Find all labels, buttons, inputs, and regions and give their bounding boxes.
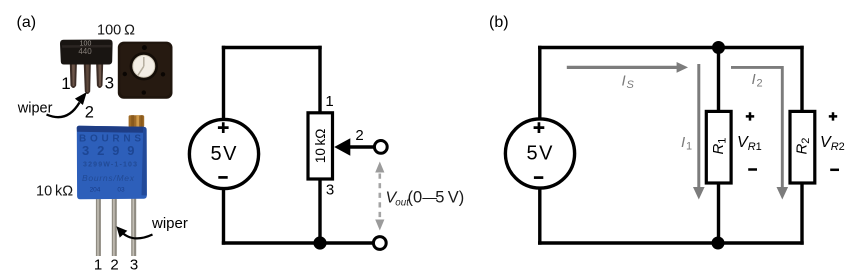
wire: (b) left lower xyxy=(538,189,541,245)
mould holes xyxy=(142,45,147,50)
wire: (a) top xyxy=(222,46,322,49)
potentiometer body 10k (a) xyxy=(308,113,333,179)
svg-text:wiper: wiper xyxy=(151,215,188,232)
wire: (a) right upper xyxy=(318,46,321,113)
svg-text:1: 1 xyxy=(756,141,762,153)
wire: R1 branch lower xyxy=(717,182,720,244)
junction node (b) top xyxy=(712,41,725,54)
current arrow I1 xyxy=(693,64,705,200)
svg-text:5V: 5V xyxy=(211,143,238,165)
junction node (a) xyxy=(313,236,326,249)
wire: R1 branch upper xyxy=(717,48,720,114)
svg-text:3299W-1-103: 3299W-1-103 xyxy=(83,162,137,169)
wire: (a) right lower xyxy=(318,178,321,243)
wiper arrow (10k) xyxy=(116,226,152,238)
svg-text:Bourns/Mex: Bourns/Mex xyxy=(82,173,135,183)
label VR1 xyxy=(737,134,762,153)
terminal: bottom output open circle xyxy=(373,237,386,250)
svg-text:2: 2 xyxy=(757,78,763,90)
svg-text:R: R xyxy=(794,144,811,155)
svg-text:(0—5 V): (0—5 V) xyxy=(408,189,465,207)
pin 2 lead (wiper) xyxy=(84,60,91,94)
pin 3 lead xyxy=(131,198,136,256)
svg-text:03: 03 xyxy=(117,187,125,194)
svg-text:3: 3 xyxy=(130,257,138,273)
svg-text:R: R xyxy=(831,141,839,153)
resistor R2 xyxy=(790,111,815,183)
wire: (a) bottom xyxy=(222,241,373,244)
junction node (b) bottom xyxy=(712,237,725,250)
svg-text:100 Ω: 100 Ω xyxy=(97,23,135,39)
potentiometer photo: 10k Bourns 3299 trimmer xyxy=(77,115,147,256)
svg-text:10 kΩ: 10 kΩ xyxy=(36,184,73,200)
svg-text:3: 3 xyxy=(326,182,334,199)
wire: (b) top xyxy=(538,46,804,49)
wire: (b) left upper xyxy=(538,46,541,119)
svg-text:I: I xyxy=(752,71,756,88)
svg-text:5V: 5V xyxy=(527,142,554,164)
svg-text:R: R xyxy=(748,141,756,153)
svg-text:R: R xyxy=(710,144,727,155)
body xyxy=(60,40,113,65)
label Vout(0-5V) xyxy=(386,189,465,209)
svg-text:(b): (b) xyxy=(489,14,509,31)
potentiometer photo: 100-ohm trimmer top view xyxy=(118,42,173,99)
screw slot xyxy=(138,57,144,75)
wire: (a) left lower xyxy=(222,189,225,245)
Vout measurement dashed arrow xyxy=(375,162,384,231)
body xyxy=(77,126,147,200)
resistor R1 xyxy=(706,111,731,183)
screw recess ring xyxy=(130,52,158,80)
pin 1 lead xyxy=(70,60,77,88)
svg-text:1: 1 xyxy=(61,74,70,93)
svg-text:204: 204 xyxy=(90,187,101,194)
svg-text:3: 3 xyxy=(105,74,114,93)
svg-text:2: 2 xyxy=(839,141,845,153)
svg-text:1: 1 xyxy=(325,93,333,110)
terminal: wiper output open circle xyxy=(374,141,387,154)
current arrow IS xyxy=(567,62,688,73)
current arrow I2 xyxy=(731,67,788,199)
svg-text:(a): (a) xyxy=(17,14,37,31)
wire: (b) bottom xyxy=(538,241,804,244)
pin 1 lead xyxy=(96,198,101,256)
svg-text:S: S xyxy=(627,79,635,91)
svg-text:I: I xyxy=(681,134,685,151)
svg-text:1: 1 xyxy=(717,138,729,144)
svg-text:440: 440 xyxy=(78,47,92,56)
pin 3 lead xyxy=(96,60,103,88)
svg-text:I: I xyxy=(622,73,626,90)
svg-text:2: 2 xyxy=(355,127,363,144)
svg-text:1: 1 xyxy=(686,141,692,153)
potentiometer photo: 100-ohm trimmer side view xyxy=(60,40,113,95)
polarity + for VR2 xyxy=(829,112,837,120)
body xyxy=(118,42,173,99)
wire: (a) left upper xyxy=(222,46,225,119)
label I2 xyxy=(752,71,763,90)
svg-text:2: 2 xyxy=(85,104,94,122)
screw (white) xyxy=(133,55,155,77)
polarity + for VR1 xyxy=(746,112,754,120)
label IS xyxy=(622,73,635,92)
svg-text:2: 2 xyxy=(110,257,118,273)
wire: (b) right upper xyxy=(800,46,803,113)
voltage source 5V (b) xyxy=(505,119,574,188)
svg-text:1: 1 xyxy=(94,257,102,273)
svg-text:2: 2 xyxy=(800,138,812,144)
wire: (b) right lower xyxy=(800,182,803,245)
svg-text:10 kΩ: 10 kΩ xyxy=(313,129,328,164)
wiper arrow (schematic a) xyxy=(334,138,374,156)
voltage source V 5V (a) xyxy=(189,119,258,188)
pin 2 lead xyxy=(112,198,117,256)
polarity - for VR1 xyxy=(748,168,757,171)
label I1 xyxy=(681,134,692,153)
polarity - for VR2 xyxy=(830,169,839,172)
wiper arrow (100-ohm) xyxy=(47,92,87,117)
label VR2 xyxy=(820,134,845,153)
adjustment screw (brass) xyxy=(129,115,145,127)
